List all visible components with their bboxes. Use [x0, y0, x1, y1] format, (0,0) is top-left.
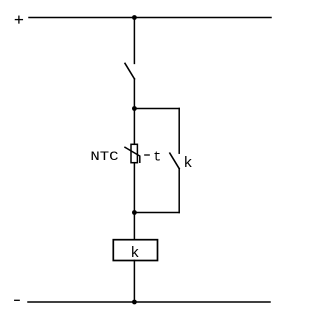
- svg-text:k: k: [183, 155, 192, 172]
- svg-text:t: t: [153, 151, 161, 166]
- svg-text:NTC: NTC: [90, 150, 118, 164]
- svg-text:k: k: [130, 245, 139, 262]
